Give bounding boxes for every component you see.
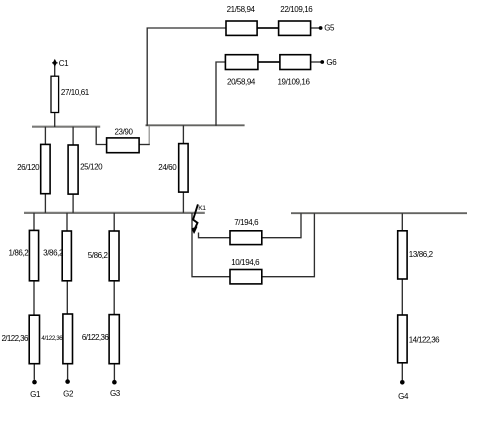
wire R13 to R14: [401, 279, 403, 315]
svg-text:G5: G5: [324, 24, 335, 33]
reactor R2: [29, 315, 39, 364]
svg-text:21/58,94: 21/58,94: [227, 5, 256, 14]
node G3 terminal: [112, 380, 117, 385]
wire R20 to R19: [258, 61, 280, 63]
node G2 terminal: [65, 379, 70, 384]
svg-text:13/86,2: 13/86,2: [409, 250, 434, 259]
wire R14 to G4: [401, 363, 403, 381]
wire bus B1 to R25: [72, 127, 74, 145]
svg-text:5/86,2: 5/86,2: [88, 251, 109, 260]
wire R19 to G6: [311, 61, 321, 63]
svg-text:19/109,16: 19/109,16: [278, 77, 311, 86]
svg-text:22/109,16: 22/109,16: [280, 5, 313, 14]
wire R10 to bus B4: [262, 213, 315, 277]
resistor R21: [226, 21, 257, 35]
reactor R13: [398, 231, 407, 279]
resistor R10: [230, 270, 262, 284]
wire bus B3 to R3: [66, 213, 68, 231]
reactor R26: [41, 144, 50, 193]
svg-text:25/120: 25/120: [80, 163, 103, 172]
reactor R1: [29, 230, 38, 280]
bus B1: [32, 126, 100, 128]
reactor R24: [179, 144, 188, 193]
node G1 terminal: [32, 380, 37, 385]
svg-text:20/58,94: 20/58,94: [227, 77, 256, 86]
wire bus B2 to R24: [182, 125, 184, 143]
reactor R5: [109, 231, 119, 281]
bus B3: [24, 212, 205, 214]
wire bus B1 to R23: [96, 127, 106, 145]
svg-text:G4: G4: [398, 392, 409, 401]
reactor R14: [398, 315, 407, 363]
resistor R20: [225, 55, 258, 70]
svg-text:24/60: 24/60: [158, 163, 177, 172]
wire R5 to R6: [113, 281, 115, 315]
wire node N2 to R20: [216, 62, 225, 126]
reactor R25: [68, 145, 78, 194]
svg-text:G2: G2: [63, 389, 74, 398]
wire fault K1 to R7: [199, 233, 231, 238]
reactor R3: [62, 231, 71, 281]
wire R27 to bus B1: [54, 113, 56, 128]
svg-text:G1: G1: [30, 390, 41, 399]
fault K1 bolt: [192, 204, 198, 233]
resistor R7: [230, 231, 262, 245]
bus B2: [146, 124, 245, 126]
svg-text:23/90: 23/90: [114, 127, 133, 136]
svg-text:10/194,6: 10/194,6: [231, 258, 260, 267]
wire R2 to G1: [33, 364, 35, 380]
wire C1 to R27: [54, 66, 56, 77]
wire R7 to bus B4: [262, 213, 301, 238]
resistor R19: [280, 55, 311, 70]
wire bus B3 to R1: [33, 213, 35, 231]
wire R4 to G2: [67, 364, 69, 380]
wire R25 to bus B3: [72, 194, 74, 213]
node G6 terminal: [320, 60, 324, 64]
wire bus B4 to R13: [401, 213, 403, 231]
wire R21 to R22: [257, 27, 279, 29]
svg-text:6/122,36: 6/122,36: [82, 333, 109, 342]
svg-text:1/86,2: 1/86,2: [8, 248, 29, 257]
wire R22 to G5: [311, 27, 320, 29]
svg-text:C1: C1: [59, 59, 69, 68]
wire R3 to R4: [66, 281, 68, 314]
wire node N1 to R21: [147, 28, 226, 126]
svg-text:26/120: 26/120: [17, 163, 40, 172]
wire R23 to node N1: [139, 144, 150, 146]
wire R24 to bus B3: [182, 192, 184, 213]
reactor R23: [107, 138, 140, 153]
bus B4: [291, 212, 467, 214]
svg-text:3/86,2: 3/86,2: [43, 248, 64, 257]
node G4 terminal: [400, 380, 405, 385]
node G5 terminal: [319, 26, 323, 30]
reactor R4: [63, 314, 73, 364]
wire R1 to R2: [33, 281, 35, 315]
wire bus B3 to R10: [192, 213, 230, 277]
wire R6 to G3: [113, 364, 115, 380]
svg-text:14/122,36: 14/122,36: [409, 335, 440, 344]
svg-text:2/122,36: 2/122,36: [1, 334, 28, 343]
wire bus B1 to R26: [44, 127, 46, 145]
svg-text:G6: G6: [326, 58, 337, 67]
svg-text:K1: K1: [198, 205, 206, 212]
node C1 terminal (arrow): [53, 59, 57, 67]
svg-text:7/194,6: 7/194,6: [234, 218, 259, 227]
resistor R22: [279, 21, 311, 35]
wire R26 to bus B3: [44, 194, 46, 213]
svg-text:4/122,36: 4/122,36: [41, 335, 63, 342]
wire bus B3 to R5: [113, 213, 115, 231]
capacitor branch R27: [51, 76, 59, 112]
svg-text:27/10,61: 27/10,61: [61, 88, 90, 97]
wire stub node N1 to R23: [148, 126, 150, 145]
svg-text:G3: G3: [110, 389, 121, 398]
reactor R6: [109, 315, 119, 364]
